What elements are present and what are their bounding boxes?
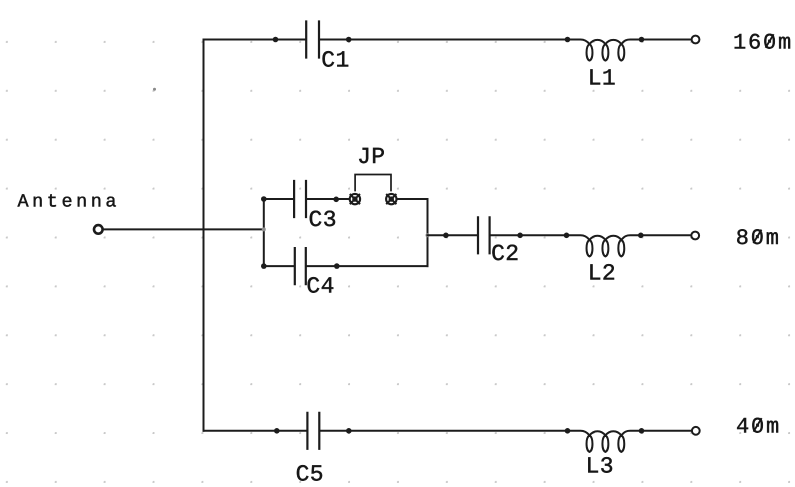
wire: C3 branch segments bbox=[264, 198, 428, 200]
node: junction dots around C5 bbox=[274, 428, 352, 434]
svg-text:160m: 160m bbox=[733, 30, 793, 55]
node: antenna tap on block (small gray) bbox=[262, 227, 266, 231]
svg-text:C1: C1 bbox=[321, 48, 349, 74]
jumper JP pin 2 bbox=[386, 194, 396, 204]
terminal pin 40m bbox=[692, 427, 700, 435]
inductor L3 bbox=[568, 431, 692, 452]
wire: bottom branch left segment bbox=[204, 430, 307, 432]
capacitor C5 bbox=[307, 413, 319, 449]
wire: top branch between C1 and L1 bbox=[320, 39, 567, 41]
terminal pin Antenna bbox=[94, 225, 103, 234]
svg-text:L2: L2 bbox=[588, 261, 616, 287]
wire: C2 to L2 bbox=[491, 234, 567, 236]
terminal pin 80m bbox=[691, 232, 699, 240]
node: junction dots around L1 bbox=[565, 37, 645, 43]
stray grid mark bbox=[153, 88, 156, 91]
svg-text:C3: C3 bbox=[309, 207, 337, 233]
wire: top branch left segment bbox=[204, 39, 306, 41]
svg-text:40m: 40m bbox=[736, 414, 781, 439]
wire: block right vertical bbox=[427, 199, 429, 266]
wire: antenna lead to C3/C4 block bbox=[104, 228, 264, 230]
slash of zero in 160m bbox=[766, 35, 773, 47]
node: junction dots on C3 branch bbox=[261, 196, 339, 202]
node: junction dots on C4 branch bbox=[261, 263, 340, 269]
node: junction dots around L3 bbox=[565, 428, 645, 434]
terminal pin 160m bbox=[692, 36, 700, 44]
svg-text:L3: L3 bbox=[586, 454, 614, 480]
node: junction dots around L2 bbox=[564, 233, 644, 239]
slash of zero in 80m bbox=[754, 230, 761, 242]
svg-text:C2: C2 bbox=[491, 241, 519, 267]
svg-text:C4: C4 bbox=[306, 274, 334, 300]
svg-text:80m: 80m bbox=[736, 226, 781, 251]
svg-text:C5: C5 bbox=[296, 461, 324, 487]
capacitor C3 bbox=[294, 181, 306, 217]
svg-text:Antenna: Antenna bbox=[18, 191, 121, 212]
node: junction dots around C2 bbox=[443, 233, 523, 239]
slash of zero in 40m bbox=[754, 419, 761, 431]
jumper JP pin 1 bbox=[350, 194, 360, 204]
wire: C4 branch segments bbox=[264, 265, 428, 267]
capacitor C1 bbox=[306, 22, 319, 58]
svg-text:L1: L1 bbox=[588, 66, 616, 92]
wire: block left vertical bbox=[263, 199, 265, 266]
capacitor C4 bbox=[295, 248, 306, 284]
wire: vertical antenna bus bbox=[203, 40, 205, 431]
capacitor C2 bbox=[478, 217, 490, 253]
node: junction dots around C1 bbox=[273, 37, 352, 43]
wire: block output to C2 bbox=[428, 234, 477, 236]
jumper JP outline bracket bbox=[355, 175, 391, 191]
svg-text:JP: JP bbox=[357, 144, 385, 170]
inductor L2 bbox=[567, 235, 691, 256]
wire: bottom branch between C5 and L3 bbox=[321, 430, 568, 432]
inductor L1 bbox=[568, 40, 691, 61]
node: output tap on block (small gray) bbox=[426, 233, 430, 237]
